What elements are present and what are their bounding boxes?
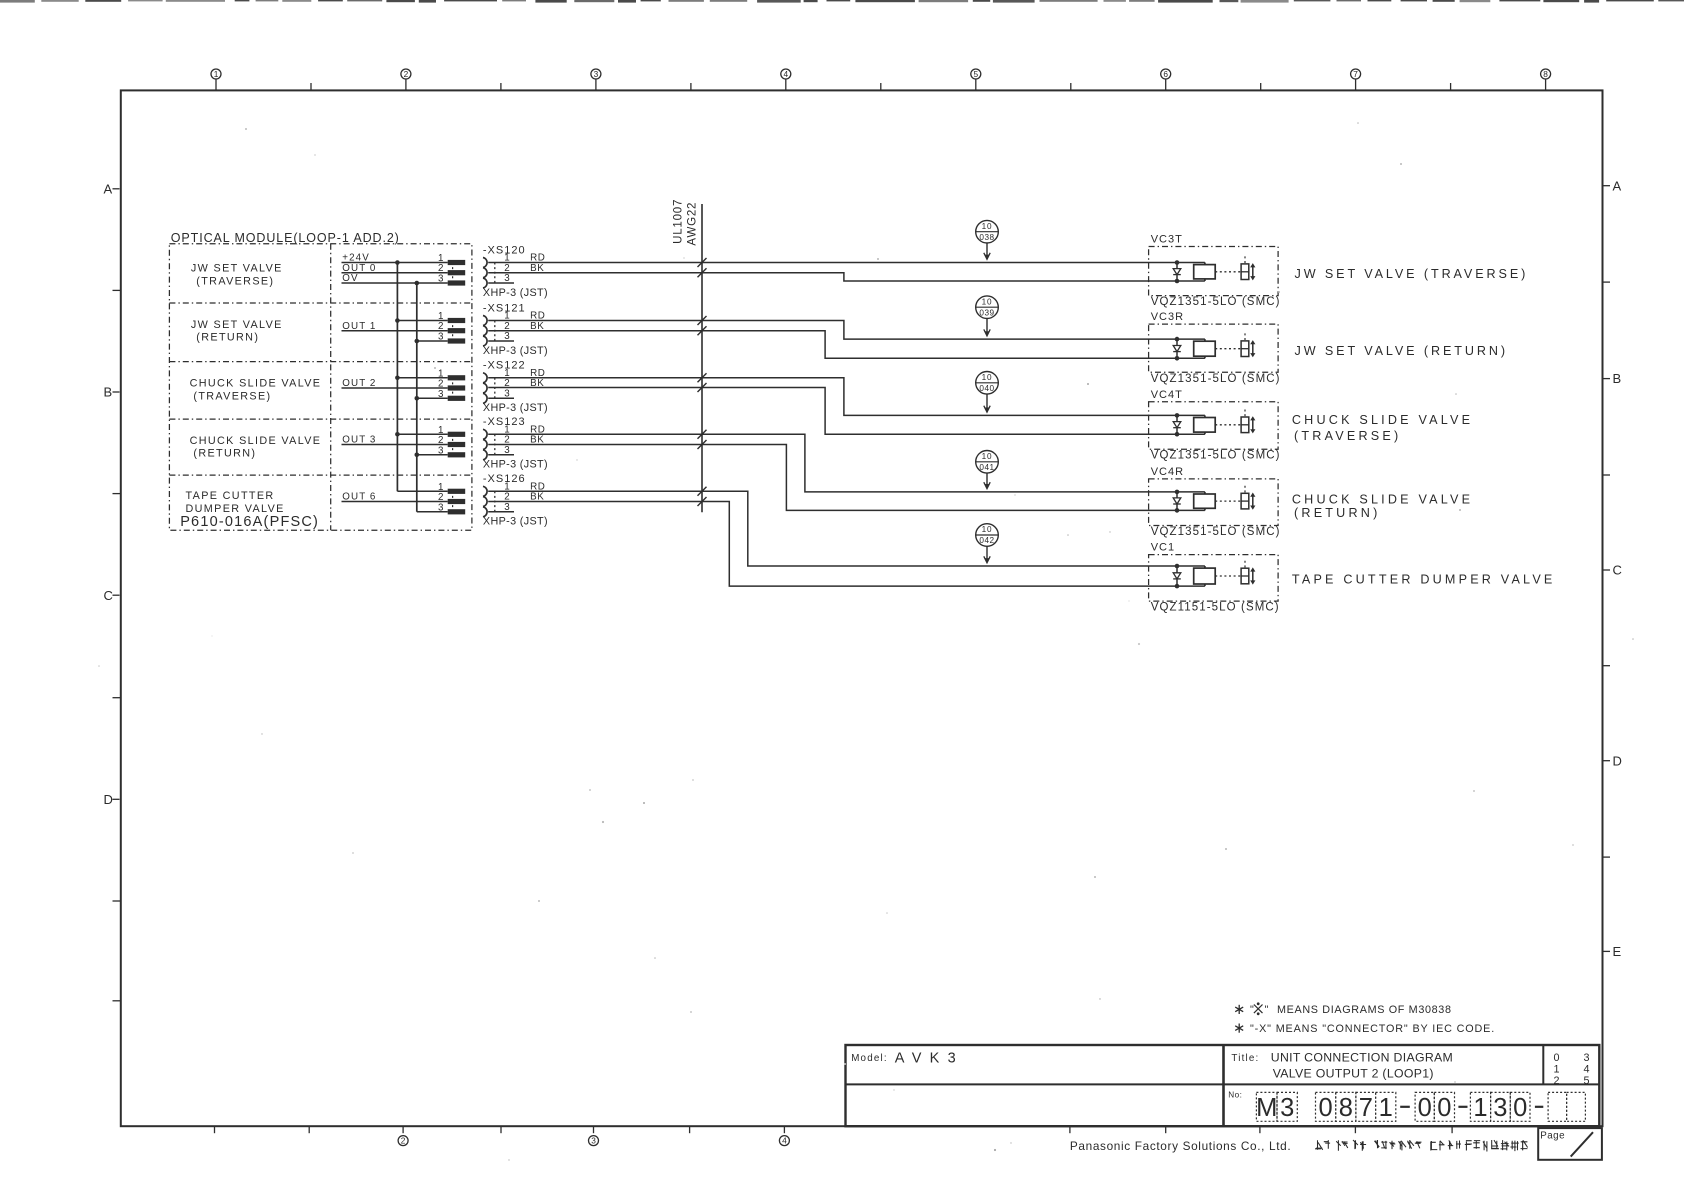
svg-text:D: D xyxy=(1613,753,1622,768)
svg-text:10: 10 xyxy=(982,222,993,231)
svg-text:0: 0 xyxy=(1437,1094,1451,1122)
svg-text:C: C xyxy=(1613,563,1622,578)
svg-text:VQZ1351-5LO (SMC): VQZ1351-5LO (SMC) xyxy=(1151,450,1281,462)
svg-text:VC1: VC1 xyxy=(1151,542,1175,554)
svg-text:VQZ1151-5LO (SMC): VQZ1151-5LO (SMC) xyxy=(1151,602,1280,614)
svg-text:6: 6 xyxy=(1163,69,1168,79)
svg-text:(TRAVERSE): (TRAVERSE) xyxy=(1294,429,1401,443)
svg-text:CHUCK SLIDE VALVE: CHUCK SLIDE VALVE xyxy=(1292,492,1473,506)
svg-text:0: 0 xyxy=(1319,1094,1333,1122)
svg-text:AWG22: AWG22 xyxy=(687,202,699,246)
svg-text:OUT 6: OUT 6 xyxy=(342,492,376,503)
svg-text:Panasonic Factory Solutions Co: Panasonic Factory Solutions Co., Ltd. xyxy=(1070,1139,1291,1153)
svg-text:VQZ1351-5LO (SMC): VQZ1351-5LO (SMC) xyxy=(1151,526,1281,538)
svg-text:UL1007: UL1007 xyxy=(673,199,685,244)
svg-text:042: 042 xyxy=(979,536,994,545)
svg-text:VALVE OUTPUT 2 (LOOP1): VALVE OUTPUT 2 (LOOP1) xyxy=(1273,1066,1434,1080)
svg-text:4: 4 xyxy=(783,69,788,79)
svg-text:1: 1 xyxy=(1473,1094,1487,1122)
svg-text:10: 10 xyxy=(982,297,993,306)
svg-text:MEANS DIAGRAMS OF M30838: MEANS DIAGRAMS OF M30838 xyxy=(1277,1004,1452,1016)
svg-text:VQZ1351-5LO (SMC): VQZ1351-5LO (SMC) xyxy=(1151,296,1281,308)
svg-text:3: 3 xyxy=(1583,1052,1589,1064)
svg-text:TAPE CUTTER: TAPE CUTTER xyxy=(186,490,275,502)
svg-text:3: 3 xyxy=(504,273,510,284)
svg-text:TAPE CUTTER DUMPER VALVE: TAPE CUTTER DUMPER VALVE xyxy=(1292,573,1556,587)
svg-text:3: 3 xyxy=(438,274,444,285)
svg-text:": " xyxy=(1265,1004,1269,1016)
svg-text:3: 3 xyxy=(438,445,444,456)
svg-text:040: 040 xyxy=(979,384,994,393)
svg-text:VC4R: VC4R xyxy=(1151,466,1184,478)
svg-text:A: A xyxy=(104,181,113,196)
svg-text:038: 038 xyxy=(979,233,994,242)
svg-text:CHUCK SLIDE VALVE: CHUCK SLIDE VALVE xyxy=(1292,413,1473,427)
svg-text:(TRAVERSE): (TRAVERSE) xyxy=(193,391,271,403)
svg-text:10: 10 xyxy=(982,373,993,382)
svg-text:D: D xyxy=(104,792,113,807)
svg-text:CHUCK SLIDE VALVE: CHUCK SLIDE VALVE xyxy=(190,435,322,447)
svg-text:"-X" MEANS "CONNECTOR" BY: "-X" MEANS "CONNECTOR" BY IEC CODE. xyxy=(1250,1023,1495,1035)
svg-text:CHUCK SLIDE VALVE: CHUCK SLIDE VALVE xyxy=(190,378,322,390)
svg-text:VC3R: VC3R xyxy=(1151,311,1184,323)
svg-text:4: 4 xyxy=(782,1136,787,1146)
svg-text:JW SET VALVE (RETURN): JW SET VALVE (RETURN) xyxy=(1295,344,1508,358)
svg-text:UNIT CONNECTION DIAGRAM: UNIT CONNECTION DIAGRAM xyxy=(1271,1051,1453,1065)
svg-text:3: 3 xyxy=(1280,1094,1294,1122)
svg-text:OUT 3: OUT 3 xyxy=(342,435,376,446)
svg-text:3: 3 xyxy=(438,389,444,400)
svg-text:XHP-3 (JST): XHP-3 (JST) xyxy=(483,516,548,528)
svg-text:0: 0 xyxy=(1553,1052,1559,1064)
svg-text:VC3T: VC3T xyxy=(1151,234,1183,246)
svg-text:(RETURN): (RETURN) xyxy=(1294,506,1380,520)
svg-text:3: 3 xyxy=(504,502,510,513)
svg-text:5: 5 xyxy=(973,69,978,79)
svg-text:3: 3 xyxy=(504,445,510,456)
svg-text:OV: OV xyxy=(342,273,358,284)
svg-text:OUT 1: OUT 1 xyxy=(342,321,376,332)
svg-text:1: 1 xyxy=(1379,1094,1393,1122)
svg-text:7: 7 xyxy=(1353,69,1358,79)
svg-text:3: 3 xyxy=(591,1136,596,1146)
svg-text:0: 0 xyxy=(1513,1094,1527,1122)
svg-text:3: 3 xyxy=(504,389,510,400)
svg-text:XHP-3 (JST): XHP-3 (JST) xyxy=(483,459,548,471)
svg-text:3: 3 xyxy=(438,502,444,513)
svg-text:Page: Page xyxy=(1540,1131,1565,1142)
svg-text:B: B xyxy=(1613,371,1622,386)
svg-text:039: 039 xyxy=(979,308,994,317)
svg-text:VQZ1351-5LO (SMC): VQZ1351-5LO (SMC) xyxy=(1151,373,1281,385)
svg-text:M: M xyxy=(1256,1094,1277,1122)
svg-text:(RETURN): (RETURN) xyxy=(193,448,256,460)
svg-text:4: 4 xyxy=(1583,1063,1589,1075)
svg-text:5: 5 xyxy=(1583,1075,1589,1087)
svg-text:AVK3: AVK3 xyxy=(895,1051,964,1067)
svg-text:1: 1 xyxy=(214,69,219,79)
svg-text:DUMPER VALVE: DUMPER VALVE xyxy=(186,503,285,515)
svg-text:(TRAVERSE): (TRAVERSE) xyxy=(196,275,274,287)
svg-text:3: 3 xyxy=(438,332,444,343)
svg-text:(RETURN): (RETURN) xyxy=(196,332,259,344)
svg-text:XHP-3 (JST): XHP-3 (JST) xyxy=(483,402,548,414)
svg-text:JW SET VALVE (TRAVERSE): JW SET VALVE (TRAVERSE) xyxy=(1295,267,1529,281)
svg-text:JW SET VALVE: JW SET VALVE xyxy=(191,263,283,275)
svg-text:No:: No: xyxy=(1228,1091,1242,1100)
svg-text:8: 8 xyxy=(1543,69,1548,79)
svg-text:XHP-3 (JST): XHP-3 (JST) xyxy=(483,287,548,299)
svg-text:B: B xyxy=(104,385,113,400)
svg-text:P610-016A(PFSC): P610-016A(PFSC) xyxy=(180,514,319,530)
svg-text:3: 3 xyxy=(1493,1094,1507,1122)
svg-text:2: 2 xyxy=(401,1136,406,1146)
svg-text:Title:: Title: xyxy=(1231,1053,1259,1064)
svg-text:3: 3 xyxy=(504,331,510,342)
svg-text:7: 7 xyxy=(1359,1094,1373,1122)
svg-text:OPTICAL MODULE(LOOP-1 ADD.2): OPTICAL MODULE(LOOP-1 ADD.2) xyxy=(171,231,400,245)
svg-text:10: 10 xyxy=(982,452,993,461)
svg-text:JW SET VALVE: JW SET VALVE xyxy=(191,319,283,331)
svg-text:3: 3 xyxy=(594,69,599,79)
svg-text:10: 10 xyxy=(982,525,993,534)
svg-text:8: 8 xyxy=(1339,1094,1353,1122)
svg-text:C: C xyxy=(104,588,113,603)
svg-text:1: 1 xyxy=(1553,1063,1559,1075)
svg-text:": " xyxy=(1250,1004,1254,1016)
svg-text:XHP-3 (JST): XHP-3 (JST) xyxy=(483,345,548,357)
svg-text:Model:: Model: xyxy=(851,1053,888,1064)
svg-text:2: 2 xyxy=(1553,1075,1559,1087)
svg-text:A: A xyxy=(1613,178,1622,193)
svg-text:0: 0 xyxy=(1418,1094,1432,1122)
svg-text:E: E xyxy=(1613,944,1622,959)
svg-text:OUT 2: OUT 2 xyxy=(342,378,376,389)
svg-text:041: 041 xyxy=(979,463,994,472)
svg-text:2: 2 xyxy=(404,69,409,79)
svg-text:VC4T: VC4T xyxy=(1151,389,1183,401)
